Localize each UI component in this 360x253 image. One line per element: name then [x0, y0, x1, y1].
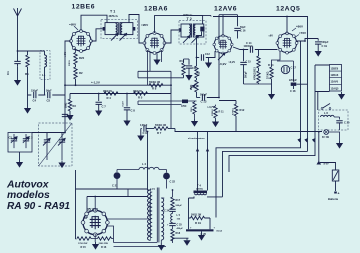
coil L4	[139, 162, 159, 170]
svg-text:1MΩ 5%: 1MΩ 5%	[103, 91, 112, 93]
svg-text:12AQ5: 12AQ5	[276, 5, 300, 12]
wire T2 secondary to volume	[197, 32, 202, 66]
resistor R19	[189, 198, 211, 229]
wire R18 to bottom rail	[173, 238, 189, 243]
ground right of R18	[183, 238, 190, 246]
svg-text:R3: R3	[73, 104, 77, 108]
svg-text:R 14: R 14	[268, 63, 274, 67]
resistor R2	[74, 65, 83, 86]
resistor R17	[171, 190, 183, 209]
ground under C11	[185, 73, 192, 81]
wire top feed	[95, 189, 128, 211]
svg-text:560pF: 560pF	[246, 71, 248, 78]
tuning gang	[39, 123, 73, 166]
wire T4 corner to bus2	[189, 197, 223, 199]
wire cathode drops	[145, 43, 162, 85]
svg-text:C 24: C 24	[164, 210, 170, 213]
resistor R21 below pot	[191, 101, 196, 119]
svg-text:C 16: C 16	[240, 29, 246, 33]
svg-text:22KΩ: 22KΩ	[69, 60, 71, 66]
svg-text:12AV6: 12AV6	[214, 5, 237, 12]
antenna	[14, 8, 22, 58]
wire mid rails	[138, 71, 184, 93]
wire long B rail to lamp	[175, 129, 322, 132]
capacitor C15	[240, 50, 251, 85]
ground under 12BA6	[153, 58, 160, 66]
ground between R15 R16	[92, 242, 99, 250]
capacitor C11	[184, 59, 198, 70]
svg-text:C 18: C 18	[290, 89, 296, 93]
svg-text:≈95V: ≈95V	[141, 23, 149, 27]
capacitor C18	[289, 66, 308, 93]
svg-text:R 4: R 4	[107, 96, 112, 100]
svg-text:T 4: T 4	[197, 184, 201, 188]
wire plate to T2	[155, 16, 203, 33]
svg-text:560μF: 560μF	[176, 205, 183, 207]
capacitor C8	[122, 94, 136, 113]
resistor R11b	[212, 105, 224, 120]
capacitor C17 electrolytic	[277, 61, 297, 74]
svg-text:R 11: R 11	[219, 111, 225, 114]
ground under gang	[58, 161, 65, 169]
svg-text:500μF: 500μF	[322, 41, 329, 44]
coil L5	[171, 211, 181, 222]
svg-text:470KΩ: 470KΩ	[232, 108, 235, 115]
svg-text:≈86V: ≈86V	[296, 25, 303, 29]
svg-text:2MΩ: 2MΩ	[65, 103, 68, 108]
ground under trimmer box	[16, 160, 23, 168]
resistor R18	[171, 226, 181, 241]
ground under R3	[66, 113, 73, 121]
svg-text:0,05μF: 0,05μF	[140, 125, 148, 127]
svg-text:1MΩ 5%: 1MΩ 5%	[133, 91, 142, 93]
resistor R4	[103, 91, 118, 100]
wire cathode row	[244, 51, 281, 84]
potentiometer volume 2M	[190, 80, 198, 98]
wire to C4/C5 row	[28, 71, 66, 95]
svg-text:Autovox: Autovox	[6, 180, 50, 191]
variable capacitor CV2	[59, 140, 65, 142]
resistor R3	[65, 99, 77, 113]
svg-text:Batteria: Batteria	[328, 197, 339, 201]
resistor R10	[180, 59, 186, 78]
svg-text:R 16: R 16	[101, 246, 107, 249]
capacitor C22 electrolytic	[159, 170, 176, 189]
svg-text:C1: C1	[6, 71, 10, 75]
capacitor C24	[164, 209, 176, 212]
svg-text:450μF: 450μF	[177, 227, 184, 230]
svg-text:RA 90 - RA91: RA 90 - RA91	[7, 201, 70, 212]
resistor R13	[254, 50, 261, 85]
wire tube right	[107, 219, 166, 247]
ground arrow under heater table	[338, 92, 345, 100]
svg-text:≈0,5V: ≈0,5V	[122, 101, 125, 107]
svg-text:5600Ω 1W: 5600Ω 1W	[149, 82, 161, 84]
capacitor C26 chassis electrolytic	[186, 227, 222, 236]
switch S1	[321, 104, 331, 110]
svg-text:150pF: 150pF	[31, 90, 38, 93]
svg-text:≈0,2V: ≈0,2V	[229, 61, 236, 64]
svg-text:500KΩ: 500KΩ	[212, 109, 214, 116]
svg-text:≈76V: ≈76V	[299, 31, 306, 35]
svg-text:R12: R12	[240, 108, 245, 112]
title text	[6, 180, 70, 212]
capacitor C20	[336, 121, 342, 123]
capacitor C9	[140, 125, 148, 135]
svg-text:C 20: C 20	[344, 121, 350, 125]
wire speaker lines	[198, 132, 208, 191]
svg-text:C 7: C 7	[102, 105, 107, 109]
svg-text:56pF: 56pF	[46, 90, 52, 93]
coil L6	[319, 110, 351, 130]
ground under C4 row	[24, 106, 31, 114]
svg-text:modelos: modelos	[7, 190, 50, 201]
resistor R16	[98, 237, 112, 249]
svg-text:R10: R10	[180, 60, 185, 63]
svg-text:12BA6: 12BA6	[144, 5, 168, 12]
svg-text:500Ω 1W: 500Ω 1W	[191, 214, 202, 217]
capacitor C6	[62, 114, 73, 120]
svg-text:R11: R11	[198, 71, 201, 76]
wire bus 2	[223, 151, 308, 197]
capacitor C4	[31, 90, 38, 103]
ground under C12 wire	[205, 61, 212, 69]
capacitor C10 dark	[181, 100, 188, 109]
svg-text:+: +	[338, 192, 340, 196]
wire grid to gang line	[65, 41, 71, 133]
wire bus 3	[229, 65, 330, 172]
svg-text:L 5: L 5	[177, 214, 181, 217]
capacitor C1	[6, 58, 21, 75]
svg-text:R 19: R 19	[195, 221, 201, 225]
svg-text:6V 1W: 6V 1W	[322, 137, 330, 139]
svg-text:R18: R18	[176, 232, 181, 235]
trimmer C2	[11, 139, 17, 141]
wire T3 vertical feed	[148, 132, 151, 191]
svg-text:5000Ω 1W: 5000Ω 1W	[155, 125, 167, 127]
fuse	[332, 170, 339, 196]
wire T1 top loop	[129, 15, 145, 44]
svg-text:R20: R20	[79, 56, 85, 60]
svg-text:500pF: 500pF	[200, 93, 207, 96]
svg-text:C2: C2	[9, 135, 13, 139]
svg-text:R 7: R 7	[157, 131, 162, 135]
wire left rails	[76, 170, 148, 239]
svg-text:2200pF: 2200pF	[289, 80, 298, 82]
svg-text:(600Ω): (600Ω)	[196, 189, 203, 191]
svg-text:C5: C5	[47, 99, 51, 103]
svg-text:C 15: C 15	[246, 61, 252, 64]
svg-text:≈6V: ≈6V	[269, 35, 274, 38]
svg-text:C 22: C 22	[170, 180, 176, 184]
svg-text:C 21: C 21	[112, 184, 118, 188]
coil L1	[40, 51, 50, 80]
svg-text:C12: C12	[205, 52, 210, 56]
svg-text:≈6mA: ≈6mA	[216, 230, 222, 233]
ground left of C9	[137, 134, 144, 142]
svg-text:C 19: C 19	[322, 44, 328, 48]
pilot lamp	[322, 130, 330, 139]
svg-text:1MΩ: 1MΩ	[191, 107, 193, 112]
resistor R20	[74, 49, 85, 65]
resistor R14	[268, 63, 275, 92]
capacitor C12	[197, 51, 215, 61]
svg-text:≈-1V: ≈-1V	[64, 52, 67, 57]
wire detector rails	[138, 101, 197, 105]
svg-text:C4: C4	[33, 99, 37, 103]
wire bus 1	[216, 41, 301, 218]
svg-text:L1: L1	[42, 73, 46, 77]
wire screen to top	[81, 15, 107, 31]
wire plate top loop	[219, 15, 238, 44]
svg-text:R 8: R 8	[152, 87, 157, 91]
svg-text:≈-1,2V: ≈-1,2V	[91, 81, 100, 85]
resistor R1	[25, 51, 29, 76]
capacitor C25	[167, 223, 183, 230]
svg-text:C 25: C 25	[177, 224, 183, 227]
capacitor C21 electrolytic	[112, 170, 139, 189]
field coil T4	[194, 184, 208, 195]
capacitor C5	[46, 90, 52, 103]
resistor R15	[76, 237, 92, 249]
svg-text:12AV6: 12AV6	[331, 81, 339, 84]
capacitor C16	[234, 26, 246, 39]
trimmer C3	[23, 139, 29, 141]
wire AVC rail	[65, 84, 171, 86]
ground under R21	[191, 119, 198, 127]
transformer T2	[179, 14, 206, 44]
trimmer box C2 C3	[8, 133, 33, 153]
ground under C1	[14, 78, 21, 86]
ground under C7	[95, 109, 102, 117]
svg-text:470KΩ R13: 470KΩ R13	[254, 67, 257, 80]
bus terminals	[298, 139, 315, 142]
svg-text:C 8: C 8	[131, 109, 136, 113]
svg-text:12BA6: 12BA6	[331, 74, 339, 77]
capacitor C13	[197, 53, 220, 104]
resistor R7	[146, 125, 175, 135]
svg-text:12AQ5: 12AQ5	[331, 87, 340, 90]
svg-text:4700: 4700	[181, 105, 187, 108]
svg-text:L 6: L 6	[324, 111, 328, 115]
ground under T3	[158, 243, 165, 251]
svg-text:R17: R17	[176, 199, 181, 202]
svg-text:al trasformatore: al trasformatore	[188, 137, 205, 140]
ground under C26	[198, 233, 205, 241]
wire gang top	[32, 133, 65, 138]
ground under C20	[336, 141, 343, 149]
svg-text:2MΩ: 2MΩ	[190, 85, 193, 90]
svg-text:≈-0,7V: ≈-0,7V	[207, 106, 215, 109]
ground under R14	[268, 92, 275, 100]
capacitor C19	[315, 39, 329, 48]
wire top rail	[190, 16, 308, 152]
svg-text:270KΩ: 270KΩ	[268, 72, 270, 79]
svg-text:≈95V: ≈95V	[69, 23, 77, 27]
svg-text:R 5: R 5	[138, 96, 143, 100]
svg-text:R 15: R 15	[81, 246, 87, 249]
svg-text:C 9: C 9	[143, 131, 148, 135]
svg-text:C 13: C 13	[201, 100, 207, 104]
heater table	[330, 65, 342, 92]
wire lamp to ground	[329, 132, 340, 141]
wire plate right	[297, 39, 319, 42]
wire R16 to right	[112, 238, 114, 240]
resistor R11	[195, 66, 201, 80]
wire plate to T1	[91, 29, 102, 41]
svg-text:12BE6: 12BE6	[72, 3, 96, 10]
svg-text:467Kc/s: 467Kc/s	[109, 15, 119, 18]
ground under R11b	[212, 120, 219, 128]
transformer T1	[101, 10, 137, 41]
resistor R5	[133, 91, 148, 100]
ground under C8	[123, 119, 130, 127]
wire to switch	[317, 91, 319, 110]
capacitor C14	[233, 41, 278, 53]
svg-text:C 14: C 14	[246, 41, 252, 45]
svg-text:12BE6: 12BE6	[331, 68, 339, 71]
ground under C19	[315, 49, 322, 57]
variable capacitor CV1	[44, 140, 50, 142]
svg-text:-0,9V: -0,9V	[219, 62, 227, 66]
svg-text:T 1: T 1	[110, 10, 115, 14]
wire from T2 area down	[170, 88, 172, 129]
wire antenna branch	[18, 50, 45, 52]
battery feed	[317, 132, 335, 170]
capacitor C7	[96, 94, 107, 109]
svg-text:R2: R2	[79, 71, 83, 75]
svg-text:L 4: L 4	[142, 162, 146, 166]
wire R4 rail	[70, 94, 171, 100]
resistor R8	[149, 82, 163, 91]
svg-text:C 3: C 3	[29, 135, 34, 139]
svg-text:10000pF: 10000pF	[244, 46, 254, 48]
resistor R12	[219, 101, 245, 132]
output transformer T3	[148, 188, 165, 244]
